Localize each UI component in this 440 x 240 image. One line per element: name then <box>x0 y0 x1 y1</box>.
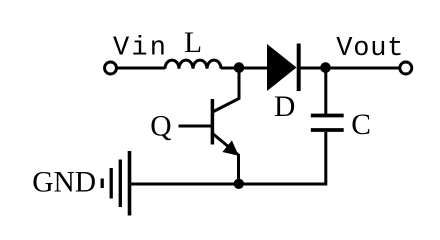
wire Vin terminal to inductor L <box>117 67 165 70</box>
svg-text:D: D <box>274 91 295 123</box>
wire Q emitter to bottom node <box>237 154 240 184</box>
wire diode cathode to node B <box>300 67 326 70</box>
inductor L (4 humps) <box>165 60 221 69</box>
svg-text:Vout: Vout <box>336 34 404 64</box>
label Vout <box>336 34 404 64</box>
label Vin <box>113 34 168 64</box>
node A junction dot (L / D anode / Q collector) <box>234 62 245 73</box>
label GND <box>32 167 96 199</box>
diode D cathode bar <box>297 44 301 92</box>
svg-text:C: C <box>351 109 371 141</box>
wire Q collector (vertical + diagonal to base bar) <box>213 68 240 112</box>
terminal Vout (open circle) <box>400 62 412 74</box>
label C (capacitor) <box>351 109 371 141</box>
diode D (filled triangle) <box>267 44 297 91</box>
ground GND symbol (tapered bars) <box>102 151 129 216</box>
capacitor C top plate <box>311 114 344 118</box>
wire inductor L to node A <box>221 67 268 70</box>
wire node B to capacitor C top plate <box>324 68 327 114</box>
svg-text:GND: GND <box>32 167 96 199</box>
capacitor C bottom plate <box>311 128 344 132</box>
label L (inductor value) <box>184 27 202 59</box>
svg-text:Vin: Vin <box>113 34 168 64</box>
wire node B to Vout terminal <box>326 67 399 70</box>
svg-text:L: L <box>184 27 202 59</box>
label Q (transistor) <box>150 110 171 142</box>
wire bottom rail to ground symbol <box>130 183 240 186</box>
terminal Vin (open circle) <box>105 62 117 74</box>
wire Q base lead <box>179 125 212 128</box>
node B junction dot (D cathode / C / Vout) <box>320 62 331 73</box>
svg-text:Q: Q <box>150 110 171 142</box>
bottom node junction dot (emitter / ground rail / C) <box>234 179 244 189</box>
label D (diode) <box>274 91 295 123</box>
transistor Q emitter (diagonal with arrow) <box>213 134 239 156</box>
transistor Q base bar <box>211 99 215 145</box>
wire capacitor C bottom plate to bottom rail <box>239 132 326 184</box>
